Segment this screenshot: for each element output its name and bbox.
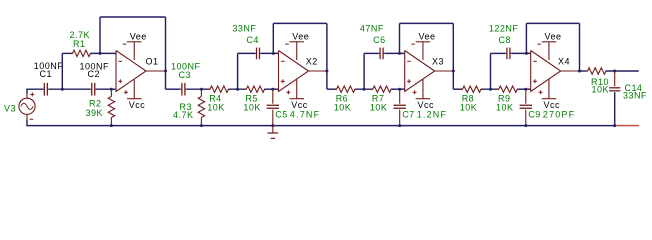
ground rail wire — [26, 125, 614, 127]
svg-text:Vee: Vee — [292, 32, 309, 42]
svg-text:R1: R1 — [73, 39, 86, 49]
node feedback of X4 — [525, 52, 528, 55]
node ground-capacitor top — [524, 88, 527, 91]
capacitor C4 — [255, 48, 261, 60]
node top-capacitor leg — [363, 88, 366, 91]
wire R1 to O1 inverting input — [91, 52, 117, 54]
resistor R8 — [460, 86, 484, 92]
label C6 47NF — [360, 24, 386, 46]
svg-text:4.7K: 4.7K — [173, 110, 194, 120]
Vcc supply pin of X2 — [286, 80, 304, 99]
capacitor C6 — [379, 48, 385, 60]
label C8 122NF — [489, 24, 519, 46]
label R10 10K — [591, 77, 609, 94]
node output — [613, 70, 616, 73]
node C14 rail junction — [613, 124, 616, 127]
svg-text:4.7NF: 4.7NF — [290, 110, 321, 120]
op-amp X2 — [279, 51, 309, 92]
label R8 10K — [460, 94, 478, 113]
svg-text:270PF: 270PF — [543, 110, 576, 120]
Vee supply pin of X2 — [285, 42, 304, 60]
svg-text:O1: O1 — [146, 56, 159, 66]
wire X2 output down to R6 — [327, 23, 337, 89]
node X2 output — [325, 70, 328, 73]
ground — [267, 126, 278, 139]
label R4 10K — [207, 94, 225, 113]
node top-capacitor leg — [489, 88, 492, 91]
svg-text:10K: 10K — [243, 102, 261, 112]
capacitor C1 — [43, 83, 49, 96]
node R3 rail junction — [200, 124, 203, 127]
label C3 100NF — [171, 61, 201, 80]
node R1 feedback — [99, 52, 102, 55]
svg-text:Vcc: Vcc — [291, 100, 308, 110]
label C14 33NF — [623, 83, 647, 100]
svg-text:X4: X4 — [558, 56, 570, 66]
wire C4 to X2 inverting input — [261, 52, 279, 54]
label R9 10K — [496, 94, 514, 113]
wire V3 top to C1 — [26, 89, 28, 93]
svg-text:C7: C7 — [402, 110, 415, 120]
label R2 39K — [86, 99, 104, 118]
resistor R10 — [585, 68, 608, 74]
resistor R7 — [370, 86, 393, 92]
node R2 rail junction — [110, 124, 113, 127]
wire X4 output to R10 — [580, 70, 588, 72]
svg-text:Vcc: Vcc — [418, 100, 435, 110]
feedback wire loop of X4 — [526, 23, 579, 53]
resistor R9 — [496, 86, 520, 92]
op-amp X3 — [405, 51, 435, 92]
svg-text:C4: C4 — [246, 35, 259, 45]
svg-text:Vee: Vee — [130, 32, 147, 42]
svg-text:X3: X3 — [432, 56, 444, 66]
wire V3 bottom to rail — [26, 120, 28, 126]
wire R6 to R7 — [355, 88, 373, 90]
wire C6 to X3 inverting input — [385, 52, 405, 54]
label R3 4.7K — [173, 102, 194, 120]
wire node up to C8 — [490, 53, 492, 89]
label C2 100NF — [80, 61, 110, 79]
resistor R3 — [198, 89, 204, 125]
wire node up to C6 — [363, 53, 365, 89]
svg-text:122NF: 122NF — [489, 24, 519, 34]
wire node up to C4 — [237, 53, 239, 89]
svg-text:10K: 10K — [207, 102, 225, 112]
svg-text:10K: 10K — [460, 102, 478, 112]
svg-text:1.2NF: 1.2NF — [417, 110, 448, 120]
Vcc supply pin of X4 — [539, 80, 557, 99]
wire O1 output — [146, 70, 166, 72]
svg-text:V3: V3 — [4, 103, 16, 113]
svg-text:10K: 10K — [370, 102, 388, 112]
label C1 100NF — [34, 61, 64, 79]
Vee supply pin of O1 — [123, 42, 142, 60]
label R1 2.7K — [70, 30, 91, 49]
capacitor C5 — [267, 89, 279, 125]
wire X4 output box right edge — [579, 23, 581, 71]
svg-text:Vcc: Vcc — [129, 100, 146, 110]
svg-text:C1: C1 — [40, 69, 53, 79]
wire R5 to X2 non-inverting input — [265, 88, 279, 90]
feedback wire loop of X3 — [400, 23, 454, 53]
capacitor C2 — [90, 83, 97, 96]
capacitor C3 — [180, 83, 186, 96]
wire C1 to C2 — [49, 88, 90, 90]
capacitor C14 — [609, 71, 620, 126]
label C5 4.7NF — [275, 110, 320, 120]
resistor R6 — [334, 86, 358, 92]
resistor R1 — [70, 50, 93, 56]
svg-text:Vee: Vee — [419, 32, 436, 42]
svg-text:Vcc: Vcc — [544, 100, 561, 110]
node ground-capacitor top — [271, 88, 274, 91]
svg-text:33NF: 33NF — [623, 90, 647, 100]
feedback wire loop of O1 — [100, 17, 166, 89]
svg-text:C6: C6 — [373, 35, 386, 45]
capacitor C9 — [520, 89, 532, 125]
label R5 10K — [243, 94, 261, 113]
wire X3 output down to R8 — [453, 23, 462, 89]
wire C8 to X4 inverting input — [511, 52, 530, 54]
node feedback of X2 — [272, 52, 275, 55]
svg-text:C5: C5 — [275, 110, 288, 120]
node top-capacitor leg — [236, 88, 239, 91]
resistor R2 — [108, 89, 114, 125]
label C7 1.2NF — [402, 110, 447, 120]
node after C1 — [61, 88, 64, 91]
node O1 output — [164, 70, 167, 73]
red output rail segment — [615, 125, 640, 127]
node X4 output — [578, 70, 581, 73]
svg-text:10K: 10K — [592, 84, 610, 94]
wire R7 to X3 non-inverting input — [391, 88, 405, 90]
wire X4 output — [561, 70, 580, 72]
voltage source V3 — [19, 92, 35, 119]
op-amp O1 — [116, 51, 146, 92]
label R6 10K — [334, 94, 352, 113]
wire C2 to O1 non-inverting input — [97, 88, 117, 90]
node C9 rail junction — [524, 124, 527, 127]
wire R10 to output node — [606, 70, 639, 72]
svg-text:C9: C9 — [528, 110, 541, 120]
label C9 270PF — [528, 110, 575, 120]
Vee supply pin of X4 — [537, 42, 556, 60]
wire R4 to R5 — [229, 88, 247, 90]
svg-text:C2: C2 — [88, 69, 101, 79]
wire C3 to R4 — [186, 88, 210, 90]
label R7 10K — [370, 94, 388, 113]
capacitor C8 — [505, 48, 511, 60]
svg-text:10K: 10K — [334, 102, 352, 112]
node ground-capacitor top — [398, 88, 401, 91]
node C7 rail junction — [398, 124, 401, 127]
wire X3 output — [435, 70, 454, 72]
node X3 output — [452, 70, 455, 73]
svg-text:X2: X2 — [306, 56, 318, 66]
node R3 top — [200, 88, 203, 91]
svg-text:C8: C8 — [498, 35, 511, 45]
svg-text:C3: C3 — [179, 70, 192, 80]
svg-text:39K: 39K — [86, 108, 104, 118]
capacitor C7 — [394, 89, 406, 125]
label C4 33NF — [232, 24, 258, 46]
Vcc supply pin of O1 — [124, 80, 142, 99]
wire node up to R1 — [61, 53, 63, 89]
svg-text:33NF: 33NF — [232, 24, 256, 34]
op-amp X4 — [531, 51, 561, 92]
wire R9 to X4 non-inverting input — [517, 88, 530, 90]
node C5 rail junction — [271, 124, 274, 127]
Vcc supply pin of X3 — [413, 80, 431, 99]
wire R8 to R9 — [481, 88, 499, 90]
svg-text:47NF: 47NF — [360, 24, 384, 34]
feedback wire loop of X2 — [273, 23, 327, 53]
Vee supply pin of X3 — [411, 42, 430, 60]
resistor R5 — [244, 86, 267, 92]
svg-text:10K: 10K — [496, 102, 514, 112]
wire O1 output down to C3 — [166, 88, 181, 90]
wire X2 output — [309, 70, 327, 72]
node R2 top — [110, 88, 113, 91]
node feedback of X3 — [398, 52, 401, 55]
svg-text:Vee: Vee — [545, 32, 562, 42]
resistor R4 — [208, 86, 232, 92]
